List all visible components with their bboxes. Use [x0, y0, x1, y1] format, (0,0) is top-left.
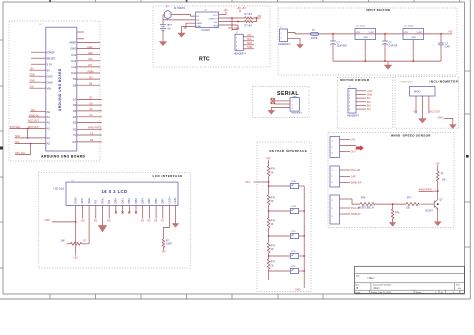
wind sensor dashed box [328, 133, 454, 228]
main +12V rail wire [319, 33, 442, 35]
bottom zone ticks [50, 294, 323, 299]
regulator U? 7805 [403, 25, 424, 39]
zone letter mark top [49, 0, 51, 2]
svg-text:MOTOR DRIVER: MOTOR DRIVER [340, 78, 370, 82]
svg-text:KEYPAD INTERFACE: KEYPAD INTERFACE [270, 149, 308, 153]
pin5 RW wire drop to gnd [102, 205, 104, 225]
svg-text:+5V: +5V [266, 157, 271, 160]
svg-text:DB4: DB4 [141, 198, 145, 204]
svg-text:PULLUP: PULLUP [351, 169, 361, 172]
svg-text:IOREF: IOREF [47, 50, 56, 54]
net GND stub [438, 116, 453, 124]
junction sw3 [268, 235, 270, 237]
ground under IC [178, 33, 185, 37]
crystal Y? 32.768kHz [164, 5, 185, 19]
connC pin3 wire / net WIND-IN [340, 213, 361, 216]
svg-text:GND: GND [30, 74, 36, 77]
pin wire 1 (+5V) [415, 96, 417, 114]
svg-text:SQW/OUT: SQW/OUT [209, 19, 219, 21]
left pin RESET [31, 56, 56, 60]
svg-text:SDA: SDA [247, 42, 252, 45]
svg-text:BC547: BC547 [426, 209, 434, 212]
svg-text:DB2: DB2 [127, 198, 131, 204]
junction SCL/A5 [30, 143, 32, 145]
svg-text:+5V: +5V [224, 9, 229, 12]
hdr6 pin3 wire / net IN1 [356, 97, 371, 100]
SECTION: INCLINOMETER [0, 0, 1, 1]
wire bus seg2 [268, 205, 270, 218]
svg-text:GND: GND [47, 74, 53, 78]
right pin D8 / net D8 [73, 83, 100, 88]
svg-text:RS: RS [94, 220, 98, 223]
pushbutton U?B 2 [290, 206, 304, 214]
svg-text:D11: D11 [71, 65, 76, 69]
svg-text:+5V +5V: +5V +5V [237, 7, 247, 10]
svg-text:D9: D9 [73, 77, 77, 81]
wire +5V out end [441, 33, 452, 35]
svg-text:VEE: VEE [87, 198, 91, 204]
svg-text:1K: 1K [271, 264, 274, 267]
SECTION: LCD INTERFACE [38, 173, 190, 268]
hdr6 pin4 wire / net IN2 [356, 101, 371, 104]
LCD module U? 16x2 [54, 179, 179, 205]
wire bus seg5 [268, 269, 270, 280]
svg-text:A3: A3 [47, 127, 51, 131]
svg-text:WIND-IN: WIND-IN [29, 114, 39, 117]
svg-text:WIND-RATE: WIND-RATE [88, 127, 102, 130]
switch SW1 wire [269, 185, 291, 187]
right pin RX / net RX [72, 139, 101, 144]
wire VBAT [184, 23, 196, 28]
wire pullups join [253, 18, 257, 22]
capacitor C? CAP NP [382, 34, 398, 61]
SECTION: KEYPAD INTERFACE [246, 142, 312, 292]
svg-text:DB6: DB6 [154, 198, 158, 204]
svg-text:D5: D5 [73, 109, 77, 113]
junction at C3 [440, 33, 442, 35]
wire emitter down [437, 209, 439, 222]
wire serial pin3 to ground [271, 108, 290, 111]
pushbutton U?D 4 [290, 251, 304, 259]
ground lcd rw (large triangle) [98, 226, 106, 232]
svg-text:R?7: R?7 [407, 197, 412, 200]
svg-text:DB1: DB1 [120, 198, 124, 204]
svg-text:ARDUINO UNO BOARD: ARDUINO UNO BOARD [41, 155, 85, 159]
top-right stub pin 1 [77, 31, 84, 33]
wire hdr pin1 to fuse [288, 33, 311, 34]
svg-text:IN3: IN3 [367, 104, 371, 107]
svg-text:GND: GND [74, 197, 78, 203]
ground lcd led [172, 224, 179, 228]
left pin 3.3V [31, 62, 52, 66]
svg-text:SERIAL: SERIAL [277, 91, 299, 97]
right pin D3 [73, 121, 102, 125]
junction key [268, 181, 270, 183]
svg-text:MST-OUT: MST-OUT [28, 126, 39, 129]
zone letter mark left [0, 147, 3, 150]
svg-text:GND: GND [363, 37, 368, 39]
junction sw1 [268, 185, 270, 187]
pin7 DB0 stub [115, 205, 117, 213]
junction sw2 [268, 210, 270, 212]
svg-text:+5V: +5V [73, 257, 78, 260]
resistor R? 1K top [267, 166, 275, 176]
junction at C2 [384, 33, 386, 35]
svg-text:GND: GND [47, 80, 53, 84]
right pin TX / net TX [73, 132, 102, 137]
svg-text:DB0: DB0 [114, 198, 118, 204]
junction rail sw5 [303, 270, 305, 272]
svg-text:IN2: IN2 [367, 101, 371, 104]
svg-text:<Title>: <Title> [367, 277, 375, 280]
wire serial pin1 [275, 100, 290, 102]
svg-text:SDA: SDA [15, 135, 20, 138]
wire crystal right to X1 [171, 15, 196, 17]
SECTION: RTC [153, 5, 270, 67]
svg-text:U?C: U?C [291, 231, 296, 233]
svg-text:WIND -SPEED SENSOR: WIND -SPEED SENSOR [391, 134, 431, 138]
SECTION: MOTOR DRIVER [338, 78, 393, 129]
pin12 DB5 wire drop / D5 [147, 205, 151, 222]
pin6 EN wire drop / EN [107, 205, 111, 222]
svg-text:A1: A1 [47, 115, 51, 119]
connB pin1 wire / net PULLUP [340, 169, 361, 172]
input section dashed box [278, 8, 457, 75]
right pin D13 / net LED [71, 52, 100, 57]
svg-text:RTC-SCL: RTC-SCL [15, 152, 26, 155]
svg-text:+5V: +5V [413, 110, 418, 113]
right pin D5 / net D5 [73, 108, 102, 113]
svg-text:U?B: U?B [291, 206, 296, 208]
left pin A2 / net ACC-OUT [28, 120, 51, 125]
left pin A3 / net RTC-SDA wire [10, 126, 51, 131]
svg-text:GND: GND [247, 46, 253, 49]
svg-text:LCD INTERFACE: LCD INTERFACE [153, 174, 183, 178]
svg-text:Sheet: Sheet [416, 291, 422, 294]
svg-text:WIND-RA: WIND-RA [351, 182, 362, 185]
connA pin3 wire / net OUT [340, 151, 357, 154]
svg-text:EN: EN [107, 220, 111, 223]
junction rail sw4 [303, 255, 305, 257]
wire SDA row [219, 24, 239, 26]
svg-text:RS: RS [89, 76, 93, 79]
keypad dashed box [257, 142, 311, 292]
svg-text:VBAT: VBAT [196, 22, 202, 25]
SECTION: MOTOR DRIVER [0, 0, 1, 1]
ground inclinometer mid [419, 119, 427, 123]
header4 pin1 wire / net +5V [243, 34, 254, 37]
hdr6 pin5 wire / net IN3 [356, 104, 371, 107]
wire base [421, 203, 435, 205]
junction gnd bus 2 [384, 60, 386, 62]
wire collector up [437, 191, 439, 200]
pin13 DB6 wire drop / D6 [154, 205, 158, 222]
svg-text:A4: A4 [47, 136, 51, 140]
left pin IOREF [31, 50, 55, 54]
svg-text:D3: D3 [73, 121, 77, 125]
right pin D6 / net D6 [73, 102, 102, 107]
ground divider [389, 223, 396, 227]
svg-text:R?3: R?3 [271, 244, 276, 247]
svg-text:SCL: SCL [247, 38, 252, 41]
transistor Q? BC547 [426, 198, 444, 212]
pin wire 3 (ACC-OUT) [428, 96, 430, 114]
junction sw4 [268, 255, 270, 257]
svg-text:DB3: DB3 [134, 198, 138, 204]
svg-text:R/W: R/W [100, 198, 104, 204]
battery BT? 3V [160, 20, 173, 30]
pot U? contrast [61, 223, 90, 260]
svg-text:10uF/50V: 10uF/50V [337, 45, 348, 48]
junction gnd bus 1 [364, 60, 366, 62]
svg-text:+12V: +12V [367, 90, 373, 93]
svg-text:RS: RS [94, 200, 98, 204]
svg-text:CAP: CAP [351, 176, 356, 179]
junction at C1 [332, 33, 334, 35]
pin11 DB4 wire drop / D4 [141, 205, 145, 222]
junction pin1 [75, 221, 77, 223]
header4 pin4 wire / net SDA [243, 46, 254, 49]
svg-text:+5V: +5V [247, 34, 252, 37]
connector J? wind 3pin A [330, 137, 340, 158]
switch SW2 wire [269, 210, 291, 212]
svg-text:HEADER 4: HEADER 4 [234, 52, 247, 55]
svg-text:Date:: Date: [355, 291, 361, 294]
left pin VIN / net VIN [30, 86, 52, 91]
junction SQW [231, 17, 233, 19]
svg-text:1K: 1K [271, 200, 274, 203]
svg-text:FUSE: FUSE [311, 37, 318, 40]
pin10 DB3 stub [135, 205, 137, 213]
resistor R? 4k7 (SCL pullup) [245, 20, 253, 27]
right zone ticks [465, 71, 471, 247]
left pin A0 / net KEY [30, 109, 50, 114]
svg-text:KEY: KEY [246, 181, 251, 184]
svg-text:GND: GND [367, 94, 373, 97]
wire bus seg1 [268, 176, 270, 195]
svg-text:GND: GND [411, 37, 416, 39]
wire hdr pin2 to ground [288, 38, 301, 44]
svg-text:A5: A5 [47, 142, 51, 146]
pin14 DB7 wire drop / D7 [161, 205, 165, 222]
svg-text:TX: TX [90, 132, 93, 135]
svg-text:MXA2500GL: MXA2500GL [401, 80, 414, 83]
wire to +5V right [257, 17, 261, 19]
svg-text:GND: GND [438, 116, 444, 119]
SECTION: ARDUINO UNO BOARD [9, 21, 102, 161]
outer border bottom [0, 298, 470, 300]
wire collector resistor upper lead to +5V [435, 162, 440, 171]
wire right gnd rail [303, 186, 305, 288]
svg-text:1K: 1K [271, 171, 274, 174]
switch SW5 wire [269, 270, 291, 272]
ground under battery [159, 42, 166, 46]
ground serial [268, 110, 275, 114]
serial section dashed box [253, 87, 310, 118]
left pin A5 SCL [15, 141, 51, 146]
junction pullup [256, 17, 258, 19]
left pin 5V / net +5V [30, 68, 51, 73]
hdr6 pin6 wire / net IN4 [356, 108, 371, 111]
svg-text:+5V: +5V [435, 162, 440, 165]
pin4 RS wire drop / RS [94, 205, 98, 222]
svg-text:WIND-IN: WIND-IN [351, 213, 361, 216]
left pin A1 / net WIND-IN [29, 114, 51, 119]
svg-text:HEADER 6: HEADER 6 [347, 114, 360, 117]
svg-text:+5V: +5V [351, 139, 356, 142]
svg-text:GND: GND [45, 219, 51, 222]
zone letter mark right [466, 155, 469, 158]
svg-text:LED+: LED+ [167, 196, 171, 203]
svg-text:LED: LED [88, 52, 93, 55]
junction rail sw3 [303, 235, 305, 237]
connector J? wind 3pin B [330, 166, 340, 187]
pin wire 2 (gnd) [421, 96, 423, 119]
svg-text:GND: GND [87, 46, 93, 49]
right pin D7 / net D7 [73, 97, 102, 102]
right pin D10 / net PWM [71, 70, 100, 75]
wire 7805 gnd down [412, 40, 414, 62]
wire crystal left to X2 [163, 15, 196, 20]
connector J? serial header [290, 97, 303, 115]
svg-text:VCC: VCC [80, 198, 84, 204]
svg-text:VIN: VIN [356, 32, 360, 34]
pin9 DB2 stub [128, 205, 130, 213]
svg-text:10K: 10K [61, 240, 66, 243]
pin16 LED- drop to ground [175, 205, 177, 223]
inclinometer dashed box [395, 76, 459, 128]
title block row lines [355, 273, 465, 275]
capacitor C? 10uF/50V [330, 34, 347, 61]
junction gnd bus 3 [412, 60, 414, 62]
top zone ticks [50, 0, 460, 2]
svg-text:+5V: +5V [257, 15, 262, 18]
junction SCL [237, 21, 239, 23]
connector J? HEADER 2 [279, 26, 292, 46]
wire serial pin2 [275, 103, 290, 105]
net WIND-RATE stub [419, 189, 438, 192]
svg-text:CAP NP: CAP NP [389, 45, 398, 48]
svg-text:R?5: R?5 [271, 196, 276, 199]
right pin GND / net GND [70, 46, 100, 51]
power +5V at VCC [219, 9, 229, 15]
IC U? arduino uno body [39, 24, 77, 151]
left zone ticks [0, 40, 3, 268]
resistor R? base horizontal [406, 197, 420, 210]
svg-text:R? 4k7: R? 4k7 [245, 13, 253, 16]
right pin AREF [69, 41, 100, 45]
resistor R? 1K sw5 [267, 259, 275, 269]
switch SW4 wire [269, 255, 291, 257]
pin1 GND wire drop [52, 205, 76, 222]
wire drop SCL to RTC-SCL [15, 144, 31, 155]
resistor R? collector pullup vertical [436, 171, 446, 181]
svg-text:INPUT SECTION: INPUT SECTION [366, 8, 390, 12]
svg-text:5V: 5V [47, 68, 50, 72]
svg-text:A2: A2 [47, 120, 51, 124]
wire bus seg3 [268, 228, 270, 243]
right pin D12 / net R/W [71, 58, 100, 63]
svg-text:MXA?: MXA? [414, 91, 421, 94]
svg-text:VIN: VIN [47, 86, 52, 90]
connA pin1 wire / net +5V [340, 139, 356, 142]
svg-text:IN4: IN4 [367, 108, 371, 111]
left pin GND1 / net GND [30, 74, 53, 79]
header4 pin2 wire / net SQW [243, 38, 254, 41]
wire SCL row [219, 21, 245, 23]
svg-text:RX: RX [72, 140, 76, 144]
pushbutton U?E 5 [290, 266, 304, 274]
resistor R? MOISTURE_R horizontal [358, 197, 376, 210]
svg-text:DB5: DB5 [147, 198, 151, 204]
wire bus top / +5V feed [268, 160, 270, 167]
ground at input header [297, 45, 304, 49]
svg-text:OUT: OUT [351, 151, 357, 154]
resistor R? divider vertical [391, 204, 400, 222]
svg-text:U?D: U?D [291, 251, 296, 253]
svg-text:VIN: VIN [404, 32, 408, 34]
svg-text:VOUT: VOUT [416, 32, 423, 34]
svg-text:A0: A0 [47, 110, 51, 114]
pin2 VCC wire drop / +5V [80, 205, 85, 222]
svg-text:INCLINOMETER: INCLINOMETER [430, 80, 459, 84]
title block column lines [370, 283, 372, 290]
svg-text:HEADER 2: HEADER 2 [279, 43, 292, 46]
svg-text:IN1: IN1 [367, 97, 371, 100]
left pin A4 SDA [15, 135, 51, 140]
svg-text:RESET: RESET [47, 56, 56, 60]
wire 7812 gnd down [364, 40, 366, 62]
svg-text:ACC-OUT: ACC-OUT [430, 110, 441, 113]
svg-text:3.3V: 3.3V [47, 62, 53, 66]
svg-text:1K: 1K [271, 248, 274, 251]
pin15 LED+ drop to resistor [163, 205, 169, 239]
svg-text:CAP: CAP [445, 46, 450, 49]
svg-text:+5V: +5V [80, 220, 85, 223]
wire drop RTC-SDA to SDA row [27, 129, 29, 138]
svg-text:R?6: R?6 [395, 212, 400, 215]
power +5V top [237, 7, 247, 13]
junction rail sw2 [303, 210, 305, 212]
svg-text:ARDUINO UNO BOARD: ARDUINO UNO BOARD [58, 68, 62, 111]
svg-text:R? 4k7: R? 4k7 [245, 24, 253, 27]
connA pin2 wire [340, 145, 357, 147]
outer border right [469, 0, 471, 299]
junction collector [437, 190, 439, 192]
capacitor C? CAP out [438, 34, 450, 61]
RTC section dashed box [153, 6, 270, 67]
svg-text:GND: GND [30, 80, 36, 83]
svg-text:+5V: +5V [161, 250, 166, 253]
resistor R? 1K sw2 [267, 195, 275, 205]
pin8 DB1 stub [122, 205, 124, 213]
svg-text:+5V: +5V [30, 68, 35, 71]
svg-text:D2: D2 [73, 127, 77, 131]
svg-text:SDA: SDA [213, 25, 218, 28]
connB pin3 wire / net WIND-RA [340, 182, 362, 185]
wire drop SCL to header [231, 18, 233, 31]
svg-text:D6: D6 [73, 103, 77, 107]
wire battery to ground [162, 30, 164, 41]
svg-text:D12: D12 [71, 59, 76, 63]
svg-text:KEY: KEY [31, 109, 36, 112]
wire SQW/OUT row [219, 17, 245, 19]
svg-text:100R: 100R [166, 243, 172, 246]
wire chain mid [376, 203, 406, 205]
pushbutton U?A 1 [290, 180, 304, 189]
svg-text:U? 7805: U? 7805 [404, 25, 414, 28]
svg-text:ACC-OUT: ACC-OUT [28, 120, 39, 123]
